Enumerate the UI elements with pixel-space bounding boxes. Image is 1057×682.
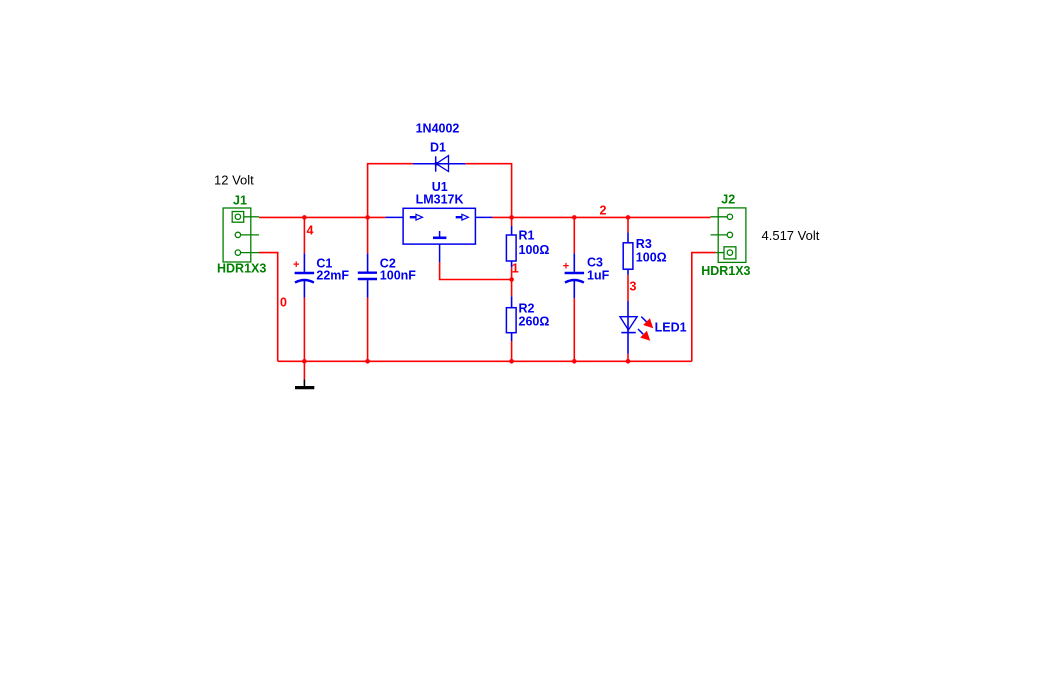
svg-text:260Ω: 260Ω [519,315,550,329]
svg-text:R3: R3 [636,237,652,251]
junction at C1 bottom [302,359,307,364]
junction at C1 top [302,215,307,220]
junction at C2 bottom [365,359,370,364]
wire net 2: R3 top branch [627,217,629,232]
wire net 2: R1 top branch [511,217,513,226]
svg-text:1uF: 1uF [587,269,610,283]
wire net 0: J1 pin3 riser [259,253,278,362]
wire net 0: J2 pin3 riser [692,253,716,362]
svg-text:+: + [293,259,299,271]
diode D1 [413,156,465,172]
svg-text:R2: R2 [519,302,535,316]
junction at C2 top [365,215,370,220]
svg-text:22mF: 22mF [316,269,349,283]
LED LED1 [620,301,637,354]
LED1 light arrow 2 [638,329,650,341]
capacitor C1 [295,253,315,297]
svg-text:3: 3 [630,279,637,293]
wire net 2: C3 top branch [573,217,575,253]
svg-text:+: + [563,261,569,273]
svg-text:C3: C3 [587,256,603,270]
U1 output arrow glyph [456,214,469,220]
junction at R2 bottom [509,359,514,364]
wire net 3: R3 to LED1 [627,275,629,301]
svg-text:1: 1 [512,261,519,275]
wire net 0: C2 bottom branch [367,298,369,362]
svg-text:LM317K: LM317K [416,193,464,207]
ground [295,361,314,387]
svg-text:1N4002: 1N4002 [416,122,460,136]
wire net 0: LED1 bottom branch [627,354,629,362]
wire net 4: J1 pin1 to U1 input rail [259,216,385,218]
svg-text:2: 2 [600,204,607,218]
connector J1 [223,208,259,262]
svg-text:J2: J2 [721,193,735,207]
svg-text:4.517 Volt: 4.517 Volt [762,228,820,243]
wire net 0: C1 bottom branch [303,298,305,362]
junction at C3 bottom [572,359,577,364]
capacitor C2 [358,253,377,297]
wire net 0: R2 bottom branch [511,341,513,361]
svg-text:100Ω: 100Ω [519,243,550,257]
wire net 4: C1 top branch [303,217,305,253]
wire net 4: D1 left riser [368,164,413,218]
wire net 2: U1 output rail to J2 pin1 [492,216,710,218]
capacitor C3 [565,253,585,298]
svg-text:4: 4 [307,224,314,238]
wire net 2: D1 right riser [465,164,511,218]
wire net 0: C3 bottom branch [573,298,575,361]
svg-text:0: 0 [280,296,287,310]
svg-text:LED1: LED1 [655,321,687,335]
junction at R3 top [626,215,631,220]
svg-text:12 Volt: 12 Volt [214,173,254,188]
connector J2 [711,208,746,263]
wire net 0: bottom ground rail [278,360,692,362]
resistor R3 [623,232,633,274]
U1 input arrow glyph [410,214,423,220]
junction at LED1 bottom [626,359,631,364]
svg-text:HDR1X3: HDR1X3 [701,264,750,278]
svg-text:100nF: 100nF [380,269,416,283]
junction at R1 top [509,215,514,220]
op-amp U1 (LM317K regulator box) [385,208,492,262]
svg-text:R1: R1 [519,229,535,243]
wire net 1: R1 bottom to node 1 [511,267,513,296]
wire net 4: C2 top branch [367,217,369,253]
junction at C3 top [572,215,577,220]
U1 adjust ground glyph [433,231,446,238]
svg-text:HDR1X3: HDR1X3 [217,262,266,276]
LED1 light arrow 1 [641,317,653,329]
wire net 1: U1 adj to node 1 [440,262,512,279]
svg-text:J1: J1 [233,194,247,208]
svg-text:100Ω: 100Ω [636,251,667,265]
junction at node 1 [509,277,514,282]
resistor R1 [506,226,516,267]
resistor R2 [506,296,516,341]
svg-text:D1: D1 [430,141,446,155]
